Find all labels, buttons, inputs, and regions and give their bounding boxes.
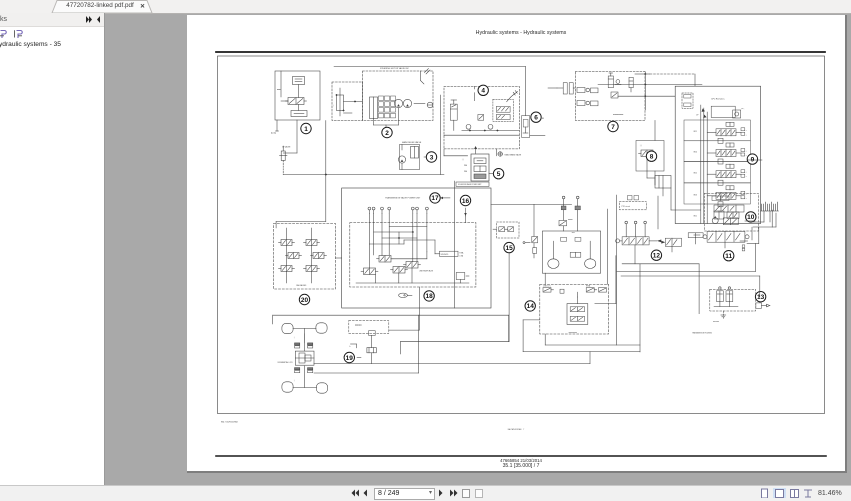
svg-text:TRANSMISSION VALVE POWER UNIT: TRANSMISSION VALVE POWER UNIT <box>385 196 421 199</box>
svg-text:CP: CP <box>696 115 699 117</box>
svg-text:STEERING MOTOR VALVE INC: STEERING MOTOR VALVE INC <box>380 67 409 70</box>
svg-text:L MA: L MA <box>460 254 463 257</box>
svg-text:3: 3 <box>430 154 434 161</box>
svg-text:⊥: ⊥ <box>746 154 748 157</box>
svg-text:CPL Remotes: CPL Remotes <box>711 98 725 101</box>
svg-text:[tank]: [tank] <box>271 132 276 135</box>
svg-text:20: 20 <box>301 297 309 304</box>
svg-text:W11: W11 <box>694 131 697 133</box>
svg-text:EAL7 1A7N2029AB: EAL7 1A7N2029AB <box>221 420 238 423</box>
svg-text:R MA: R MA <box>460 251 464 254</box>
svg-text:7: 7 <box>611 124 615 131</box>
svg-text:▬▬▬▬▬▬: ▬▬▬▬▬▬ <box>613 114 623 116</box>
svg-text:▬▬▬: ▬▬▬ <box>568 219 573 221</box>
svg-text:▏: ▏ <box>293 336 295 339</box>
svg-text:▬▬: ▬▬ <box>572 232 575 234</box>
svg-text:↳: ↳ <box>349 345 351 348</box>
svg-text:12: 12 <box>653 253 661 260</box>
svg-text:W14: W14 <box>694 152 698 154</box>
svg-text:SOLENOID: SOLENOID <box>441 254 450 256</box>
svg-text:MAIN RELIEF VALVE: MAIN RELIEF VALVE <box>402 141 422 144</box>
svg-text:13: 13 <box>757 294 765 301</box>
svg-text:▬▬▬▬▬▬: ▬▬▬▬▬▬ <box>569 332 578 334</box>
svg-text:DIFFERENTIAL LOCK: DIFFERENTIAL LOCK <box>278 361 293 364</box>
svg-text:6: 6 <box>534 115 538 122</box>
svg-text:⊥: ⊥ <box>746 197 748 200</box>
svg-text:▬▬ ▬▬: ▬▬ ▬▬ <box>713 321 720 323</box>
svg-text:PTO circuit: PTO circuit <box>622 205 631 208</box>
svg-text:11: 11 <box>725 253 732 260</box>
svg-text:24YA 35 CYL: 24YA 35 CYL <box>543 284 551 287</box>
svg-text:WM: WM <box>464 171 468 173</box>
svg-text:15: 15 <box>505 245 513 252</box>
svg-text:LINE RELIEF VALVE: LINE RELIEF VALVE <box>419 270 433 273</box>
svg-text:W13: W13 <box>694 194 698 196</box>
svg-text:▏▏: ▏▏ <box>639 144 642 147</box>
svg-text:17: 17 <box>431 195 439 202</box>
svg-text:2: 2 <box>385 130 389 137</box>
svg-text:19: 19 <box>346 355 354 362</box>
svg-text:CAB VALVES: CAB VALVES <box>296 284 307 287</box>
svg-text:⊥: ⊥ <box>746 192 748 195</box>
svg-text:5: 5 <box>497 171 501 178</box>
svg-text:▌ ▌▌▌▌▌: ▌ ▌▌▌▌▌ <box>355 324 362 327</box>
svg-text:⊥: ⊥ <box>746 129 748 132</box>
svg-text:TRANSMISSION HOUSING: TRANSMISSION HOUSING <box>692 332 713 335</box>
svg-text:RE MA: RE MA <box>586 284 590 287</box>
svg-text:1: 1 <box>304 126 308 133</box>
svg-text:18: 18 <box>425 293 433 300</box>
svg-text:WM: WM <box>464 165 468 167</box>
svg-text:W12: W12 <box>694 173 698 175</box>
svg-text:⊥: ⊥ <box>746 133 748 136</box>
svg-text:☰: ☰ <box>542 117 544 120</box>
svg-text:14: 14 <box>527 303 535 310</box>
svg-text:10: 10 <box>747 214 755 221</box>
svg-text:▏▏: ▏▏ <box>461 158 465 161</box>
svg-text:W11: W11 <box>694 216 697 218</box>
svg-text:HAND BRAKE VALVE: HAND BRAKE VALVE <box>505 154 523 157</box>
svg-text:8: 8 <box>650 154 654 161</box>
svg-text:⊥: ⊥ <box>746 175 748 178</box>
svg-text:SOLENOID VALVE POWER UNIT: SOLENOID VALVE POWER UNIT <box>458 183 482 186</box>
svg-text:▏: ▏ <box>293 379 295 382</box>
svg-text:BAL7APH2029AB 7: BAL7APH2029AB 7 <box>508 428 524 431</box>
svg-text:16: 16 <box>462 198 470 205</box>
svg-text:4: 4 <box>481 88 485 95</box>
svg-text:▬▬: ▬▬ <box>277 89 281 91</box>
svg-text:⊥: ⊥ <box>746 150 748 153</box>
svg-text:⊥: ⊥ <box>746 171 748 174</box>
svg-text:▏: ▏ <box>333 104 335 107</box>
svg-text:⊢⊣: ⊢⊣ <box>742 107 745 111</box>
